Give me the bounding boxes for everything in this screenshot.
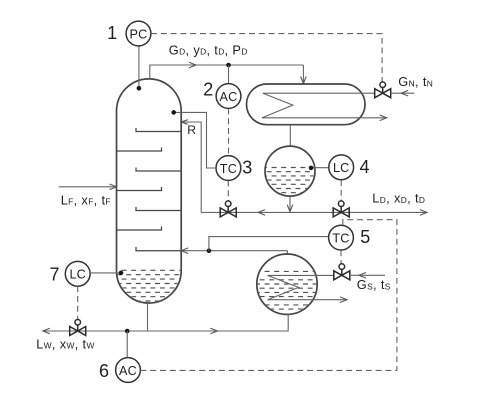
- arrow feed: [110, 184, 117, 190]
- AC6 impulse line: [126, 331, 128, 358]
- condenser shell: [247, 84, 366, 125]
- condenser coil bottom tube / coolant outlet: [262, 117, 387, 119]
- valve GN: [375, 82, 391, 98]
- svg-text:2: 2: [203, 80, 213, 100]
- tray 1 (right): [136, 128, 181, 132]
- condenser coil top tube: [263, 92, 375, 94]
- arrow to reflux (left): [258, 210, 265, 216]
- tray 3 (right): [136, 168, 181, 172]
- node: AC6 tap: [125, 329, 130, 334]
- svg-text:LD, xD, tD: LD, xD, tD: [372, 191, 425, 206]
- signal AC6 to TC5: [140, 220, 397, 371]
- tray 2 (left): [117, 148, 162, 152]
- column bottom liquid: [107, 270, 186, 301]
- reboiler E2 shell: [257, 254, 317, 314]
- arrow reflux into column: [181, 120, 188, 125]
- valve LW: [70, 320, 86, 336]
- svg-text:LC: LC: [333, 161, 350, 175]
- valve LD: [333, 201, 349, 217]
- tray 5 (right): [136, 207, 181, 211]
- arrow bottoms out (left): [43, 328, 50, 334]
- svg-text:LW, xW, tW: LW, xW, tW: [36, 336, 95, 351]
- valve reflux: [220, 201, 236, 217]
- arrow to reboiler (right): [210, 328, 217, 334]
- svg-text:TC: TC: [220, 162, 237, 176]
- svg-text:LC: LC: [69, 268, 86, 282]
- arrow distillate out (right): [420, 210, 427, 216]
- arrow vapor into column: [181, 248, 188, 254]
- GS inlet stub: [350, 274, 385, 276]
- LC4 impulse line: [311, 167, 329, 169]
- svg-text:GN, tN: GN, tN: [398, 74, 433, 89]
- svg-text:AC: AC: [220, 90, 238, 104]
- drum liquid: [257, 168, 318, 193]
- arrow drum outlet: [287, 205, 293, 212]
- svg-text:TC: TC: [332, 231, 349, 245]
- overhead pipe drop into condenser: [302, 65, 304, 83]
- PC impulse line: [138, 46, 140, 88]
- column K1 shell: [117, 79, 182, 303]
- node: LC7 tap: [119, 271, 124, 276]
- reflux drum E1: [265, 146, 315, 196]
- controller LC (pos.7): [65, 261, 90, 286]
- controller AC (pos.2): [228, 65, 230, 84]
- signal TC5 to GS valve: [340, 250, 342, 264]
- drum outlet pipe: [289, 196, 291, 211]
- svg-text:R: R: [187, 123, 196, 137]
- tray 7 (right): [136, 247, 181, 251]
- reboiler coil bottom tube / condensate out: [268, 299, 348, 301]
- node: AC sensing tap: [226, 63, 231, 68]
- svg-text:3: 3: [242, 157, 252, 177]
- condenser coil chevron: [262, 93, 293, 118]
- signal TC3 to reflux valve: [227, 180, 229, 201]
- signal LC4 to LD valve: [340, 180, 342, 201]
- node: TC5 tap junction: [207, 248, 212, 253]
- signal AC to TC3: [228, 108, 230, 155]
- feed pipe LF: [59, 186, 117, 188]
- reflux riser pipe: [181, 122, 201, 212]
- arrow GS inlet: [359, 273, 366, 279]
- svg-text:1: 1: [107, 23, 117, 43]
- column bottom outlet pipe: [147, 303, 149, 331]
- signal PC to GN valve: [151, 34, 382, 83]
- GN inlet stub: [391, 92, 415, 94]
- reboiler coil top tube: [268, 274, 334, 276]
- distillate / reflux header: [201, 211, 427, 213]
- overhead vapor pipe: [150, 65, 304, 79]
- arrow GN inlet: [401, 90, 408, 96]
- svg-text:6: 6: [99, 361, 109, 381]
- arrow on overhead pipe: [189, 62, 196, 68]
- controller TC (pos.5): [329, 225, 354, 250]
- TC3 impulse line: [174, 112, 216, 168]
- tray 4 (left): [117, 187, 162, 191]
- arrow coolant outlet: [380, 115, 387, 121]
- vapor return pipe from reboiler: [181, 250, 287, 252]
- svg-text:AC: AC: [119, 364, 137, 378]
- controller LC (pos.4): [329, 155, 354, 180]
- valve GS: [334, 264, 350, 280]
- svg-text:GD, yD, tD, PD: GD, yD, tD, PD: [169, 42, 248, 57]
- node: PC tap on column top: [137, 86, 142, 91]
- svg-text:PC: PC: [130, 27, 148, 41]
- svg-text:GS, tS: GS, tS: [357, 277, 391, 292]
- node: LC4 tap: [309, 166, 314, 171]
- controller TC (pos.3): [216, 156, 241, 181]
- bottoms header: [43, 314, 288, 331]
- tray 6 (left): [117, 227, 162, 231]
- signal LC7 to LW valve: [77, 286, 79, 319]
- node: TC3 tap: [171, 110, 176, 115]
- svg-text:7: 7: [49, 265, 59, 285]
- reboiler liquid: [250, 271, 319, 309]
- svg-text:5: 5: [360, 227, 370, 247]
- arrow condensate out: [340, 297, 347, 303]
- controller PC (pos.1): [126, 21, 151, 46]
- arrow into condenser: [301, 77, 307, 84]
- LC7 impulse line: [90, 272, 121, 274]
- condensate drain pipe: [289, 125, 291, 147]
- reboiler coil chevron: [268, 275, 299, 299]
- controller AC (pos.6): [116, 358, 141, 383]
- svg-text:LF, xF, tF: LF, xF, tF: [61, 192, 111, 207]
- svg-text:4: 4: [359, 157, 369, 177]
- TC5 impulse line: [209, 237, 329, 251]
